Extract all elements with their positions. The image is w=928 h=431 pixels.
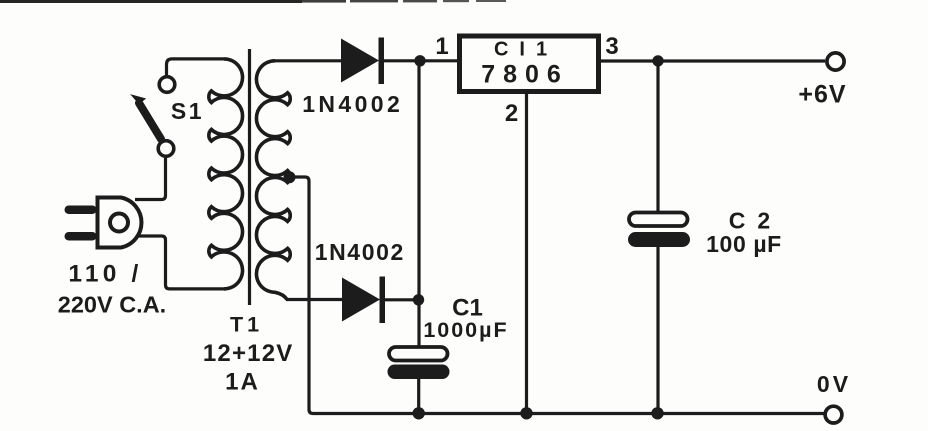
svg-text:1N4002: 1N4002 — [302, 91, 403, 117]
svg-text:S1: S1 — [171, 98, 204, 124]
wire D1 cathode to node — [384, 59, 458, 62]
svg-text:2: 2 — [505, 100, 518, 127]
svg-text:1000µF: 1000µF — [423, 318, 508, 342]
svg-text:1: 1 — [435, 33, 448, 60]
label C1 1000uF — [423, 295, 508, 343]
capacitor C1 1000uF — [388, 347, 450, 379]
label 110/220 VCA — [58, 261, 166, 318]
label C2 100uF — [706, 208, 782, 258]
capacitor C2 100uF — [628, 213, 690, 248]
wire C2 top — [656, 61, 659, 213]
svg-text:1N4002: 1N4002 — [315, 239, 405, 265]
node pin2 ground — [520, 407, 532, 419]
node C2 top — [652, 55, 663, 66]
plug P1 AC mains — [65, 198, 142, 248]
node rectifier output — [414, 55, 425, 66]
wire C2 bottom to ground rail — [656, 247, 659, 414]
svg-text:110 /: 110 / — [68, 261, 142, 288]
node D2 cathode junction — [413, 294, 424, 305]
svg-text:+6V: +6V — [798, 81, 846, 109]
transformer T1 core — [248, 49, 251, 305]
svg-text:T1: T1 — [230, 313, 263, 337]
wire pin 3 to +6V terminal — [601, 59, 825, 62]
IC CI1 7806 regulator — [460, 36, 599, 92]
transformer T1 primary winding — [209, 59, 243, 289]
terminal 0V — [825, 406, 842, 423]
svg-text:7806: 7806 — [481, 61, 569, 89]
wire D2 cathode to node — [385, 298, 419, 301]
svg-text:3: 3 — [605, 33, 618, 60]
wire plug to switch — [135, 158, 166, 200]
wire C1 to ground rail — [417, 379, 420, 414]
node center tap — [284, 171, 296, 183]
label T1 12+12V 1A — [203, 313, 294, 396]
transformer T1 secondary winding — [256, 61, 290, 300]
wire center tap to ground rail — [291, 177, 824, 414]
svg-text:CI1: CI1 — [494, 39, 558, 61]
svg-text:0V: 0V — [817, 371, 851, 397]
switch S1 — [133, 77, 175, 157]
diode D2 1N4002 — [342, 277, 385, 324]
node C1 ground — [413, 407, 425, 419]
svg-text:100 µF: 100 µF — [706, 231, 782, 257]
svg-text:C2: C2 — [729, 208, 782, 234]
diode D1 1N4002 — [341, 38, 384, 85]
wire secondary top to diode D1 — [275, 59, 343, 62]
wire rectifier node down to C1 — [417, 61, 420, 348]
wire pin 2 to ground rail — [525, 94, 528, 414]
svg-text:12+12V: 12+12V — [203, 340, 294, 367]
svg-text:1A: 1A — [225, 369, 260, 396]
wire plug to transformer primary bottom — [137, 236, 226, 289]
svg-text:220V C.A.: 220V C.A. — [58, 292, 166, 318]
wire secondary bottom to diode D2 — [286, 298, 344, 301]
terminal +6V — [827, 53, 844, 70]
node C2 ground — [651, 407, 663, 419]
wire switch to transformer primary top — [167, 59, 225, 76]
